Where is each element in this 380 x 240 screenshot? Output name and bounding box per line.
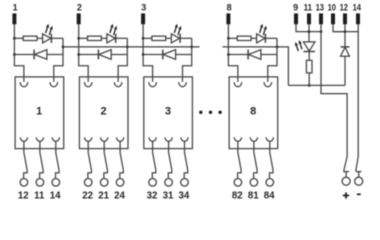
- svg-text:32: 32: [147, 191, 158, 202]
- terminal circle plus: [342, 177, 350, 185]
- node C (diode tap): [142, 53, 145, 56]
- contact socket pin 34: [181, 137, 188, 141]
- terminal circle 32: [149, 179, 157, 187]
- contact socket pin 12: [20, 137, 27, 141]
- svg-text:14: 14: [353, 2, 361, 12]
- wire resistor to LED: [101, 37, 107, 39]
- wire LED to node B: [116, 37, 128, 39]
- terminal 10: [331, 13, 335, 24]
- contact socket pin 84: [266, 137, 273, 141]
- wire pin to terminal 32: [152, 141, 156, 179]
- LED D8 light arrows: [260, 27, 262, 33]
- wire node B down to coil right pin: [118, 38, 127, 82]
- LED D1 light arrows: [46, 27, 48, 33]
- relay box 8: [229, 77, 278, 149]
- wire node C to diode: [143, 54, 163, 56]
- resistor R2: [88, 36, 102, 40]
- contact socket pin 21: [101, 137, 108, 141]
- wire line A (node X rail): [288, 84, 345, 86]
- svg-text:24: 24: [114, 191, 125, 202]
- terminal 13: [319, 13, 323, 24]
- freewheel diode V1: [33, 50, 35, 60]
- wire resistor to LED: [251, 37, 257, 39]
- wire diode to node B: [176, 54, 192, 56]
- wire LED to node B: [180, 37, 192, 39]
- terminal circle minus: [355, 177, 363, 185]
- node A (resistor tap): [13, 37, 16, 40]
- node A (resistor tap): [227, 37, 230, 40]
- coil socket contact left: [20, 82, 28, 87]
- wire terminal 10 to bus: [333, 24, 345, 31]
- coil socket contact right: [264, 82, 272, 87]
- resistor R3: [152, 36, 166, 40]
- terminal circle 82: [234, 179, 242, 187]
- wire node A to resistor: [79, 37, 88, 39]
- relay box 2: [79, 77, 128, 149]
- LED D1: [43, 34, 51, 43]
- resistor R8: [237, 36, 251, 40]
- node C (diode tap): [227, 53, 230, 56]
- contact socket pin 82: [234, 137, 241, 141]
- svg-text:8: 8: [227, 2, 232, 12]
- freewheel diode V2: [97, 50, 99, 60]
- label minus: [357, 193, 361, 195]
- terminal circle 81: [250, 179, 258, 187]
- wire terminal down to coil left pin: [79, 24, 89, 82]
- wire pin to terminal 21: [104, 141, 108, 179]
- coil socket contact left: [149, 82, 157, 87]
- wire pin to terminal 12: [24, 141, 28, 179]
- wire node B down to coil right pin: [268, 38, 277, 82]
- supply circuit: [288, 2, 362, 198]
- svg-text:12: 12: [340, 2, 348, 12]
- wire terminal down to coil left pin: [143, 24, 153, 82]
- terminal circle 22: [84, 179, 92, 187]
- svg-text:3: 3: [165, 106, 171, 118]
- relay box 1: [15, 77, 64, 149]
- contact socket pin 11: [36, 137, 43, 141]
- wire pin to terminal 34: [184, 141, 188, 179]
- node B (bus junction): [126, 46, 129, 49]
- wire pin to terminal 81: [254, 141, 258, 179]
- wire terminal 13 down to plus terminal: [321, 24, 347, 171]
- LED D3 light arrows: [174, 27, 176, 33]
- node 12 junction: [344, 30, 347, 33]
- wire pin to terminal 22: [88, 141, 92, 179]
- wire diode to line A: [344, 56, 346, 85]
- terminal circle 34: [181, 179, 189, 187]
- node A (resistor tap): [77, 37, 80, 40]
- terminal 3: [141, 13, 145, 24]
- node 13 junction: [320, 30, 323, 33]
- svg-text:2: 2: [100, 106, 106, 118]
- resistor (LED series): [306, 60, 312, 73]
- contact socket pin 31: [165, 137, 172, 141]
- terminal 11: [307, 13, 311, 24]
- node B (bus junction): [276, 46, 279, 49]
- wire pin to terminal 84: [270, 141, 274, 179]
- wire diode to node B: [111, 54, 127, 56]
- wire resistor to LED: [37, 37, 43, 39]
- svg-text:22: 22: [82, 191, 93, 202]
- terminal 1: [12, 13, 16, 24]
- coil socket contact left: [84, 82, 92, 87]
- wire node A to resistor: [143, 37, 152, 39]
- svg-text:2: 2: [77, 2, 82, 12]
- contact socket pin 81: [250, 137, 257, 141]
- wire pin to terminal 14: [56, 141, 60, 179]
- terminal 8: [226, 13, 230, 24]
- terminal circle 84: [266, 179, 274, 187]
- terminal circle 11: [36, 179, 44, 187]
- LED D2 light arrows: [110, 27, 112, 33]
- wire diode to node B: [47, 54, 63, 56]
- coil socket contact right: [114, 82, 122, 87]
- wire node A to resistor: [228, 37, 237, 39]
- wire LED to node B: [51, 37, 63, 39]
- wire terminal 9 to bus: [296, 24, 309, 31]
- terminal circle 31: [165, 179, 173, 187]
- continuation dots: [199, 111, 222, 114]
- wire resistor to LED: [166, 37, 172, 39]
- terminal 2: [77, 13, 81, 24]
- svg-text:3: 3: [141, 2, 146, 12]
- terminal circle 14: [52, 179, 60, 187]
- contact socket pin 32: [149, 137, 156, 141]
- wire pin to terminal 11: [40, 141, 44, 179]
- channel 8: [226, 2, 278, 201]
- terminal circle 21: [100, 179, 108, 187]
- svg-text:81: 81: [248, 191, 259, 202]
- svg-text:1: 1: [13, 2, 18, 12]
- coil return bus (channels 1-3): [63, 46, 200, 48]
- freewheel diode V3: [162, 50, 164, 60]
- svg-text:9: 9: [293, 2, 298, 12]
- node X: [308, 84, 311, 87]
- terminal 14: [356, 13, 360, 24]
- svg-text:21: 21: [98, 191, 109, 202]
- svg-text:1: 1: [36, 106, 42, 118]
- wire pin to terminal 82: [238, 141, 242, 179]
- power LED: [303, 42, 315, 51]
- wire terminal 11 down to LED: [308, 24, 310, 42]
- node 11 junction: [308, 30, 311, 33]
- wire terminal 12 stub: [344, 24, 346, 31]
- terminal circle plus tick: [343, 172, 349, 178]
- wire resistor to node X: [308, 73, 310, 86]
- terminal circle 24: [116, 179, 124, 187]
- power LED light arrows: [300, 44, 302, 50]
- node B (bus junction): [62, 46, 65, 49]
- contact socket pin 22: [85, 137, 92, 141]
- wire node B down to coil right pin: [183, 38, 192, 82]
- relay box 3: [144, 77, 193, 149]
- coil return bus (channel 8 to supply circuit): [223, 47, 289, 86]
- node C (diode tap): [13, 53, 16, 56]
- contact socket pin 24: [117, 137, 124, 141]
- svg-text:13: 13: [316, 2, 324, 12]
- coil socket contact right: [179, 82, 187, 87]
- svg-text:11: 11: [34, 191, 45, 202]
- LED D3: [171, 34, 179, 43]
- node A (resistor tap): [142, 37, 145, 40]
- svg-text:11: 11: [304, 2, 312, 12]
- svg-text:84: 84: [264, 191, 275, 202]
- LED D8: [257, 34, 265, 43]
- wire bus 9-11-13: [309, 31, 321, 33]
- coil socket contact left: [234, 82, 242, 87]
- svg-text:31: 31: [163, 191, 174, 202]
- wire terminal 14 down to minus terminal: [356, 24, 358, 171]
- wire diode to node B: [261, 54, 277, 56]
- svg-text:12: 12: [18, 191, 29, 202]
- svg-text:82: 82: [232, 191, 243, 202]
- terminal 12: [343, 13, 347, 24]
- wire node C to diode: [79, 54, 99, 56]
- wire bus 10-12-14: [333, 31, 358, 33]
- coil socket contact right: [50, 82, 58, 87]
- resistor R1: [23, 36, 37, 40]
- wire node C to diode: [14, 54, 34, 56]
- channel 3: [141, 2, 193, 201]
- channel 1: [12, 2, 64, 201]
- reverse polarity diode: [344, 32, 346, 47]
- wire terminal down to coil left pin: [228, 24, 238, 82]
- terminal circle 12: [20, 179, 28, 187]
- terminal 9: [294, 13, 298, 24]
- wire pin to terminal 31: [168, 141, 172, 179]
- label plus: [343, 192, 349, 198]
- wire node C to diode: [228, 54, 248, 56]
- terminal circle minus tick: [356, 172, 362, 177]
- wire terminal down to coil left pin: [14, 24, 24, 82]
- wire LED to node B: [265, 37, 277, 39]
- channel 2: [77, 2, 129, 201]
- wire node B down to coil right pin: [54, 38, 63, 82]
- node C (diode tap): [77, 53, 80, 56]
- wire pin to terminal 24: [120, 141, 124, 179]
- svg-text:34: 34: [179, 191, 190, 202]
- wire node A to resistor: [14, 37, 23, 39]
- svg-text:10: 10: [328, 2, 336, 12]
- LED D2: [107, 34, 115, 43]
- wire LED to resistor: [308, 52, 310, 61]
- node B (bus junction): [190, 46, 193, 49]
- svg-text:8: 8: [250, 106, 256, 118]
- contact socket pin 14: [52, 137, 59, 141]
- freewheel diode V8: [247, 50, 249, 60]
- svg-text:14: 14: [50, 191, 61, 202]
